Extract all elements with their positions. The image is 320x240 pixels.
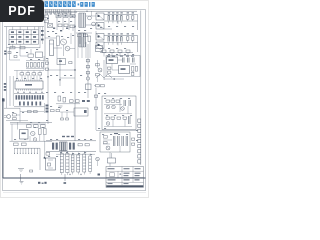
resistor network R1-R12 (table) bbox=[9, 30, 39, 44]
node dots top rail bbox=[56, 11, 87, 12]
op-amp U2 (error amp) bbox=[20, 130, 29, 140]
title block frame bbox=[106, 167, 144, 188]
resistor R92 bbox=[85, 144, 89, 146]
resistor R85 bbox=[22, 143, 27, 146]
junction block on frame bbox=[2, 99, 5, 102]
wire rail A- bbox=[104, 20, 138, 22]
labels C203-C208 bbox=[108, 33, 134, 34]
label rev mark bbox=[64, 182, 67, 184]
resistor R76 bbox=[56, 110, 60, 112]
resistor R34 bbox=[45, 68, 48, 70]
wire rail stubs bbox=[50, 11, 77, 15]
capacitor CX1 bbox=[48, 24, 53, 28]
capacitor bank C103-C108 bbox=[108, 15, 134, 20]
node dot T1a bbox=[74, 26, 75, 27]
resistor R74 bbox=[34, 111, 38, 113]
wire rail B+ bbox=[104, 35, 138, 37]
capacitor C112b bbox=[128, 58, 130, 63]
ground GND2 bbox=[20, 182, 24, 185]
sub-board outline B2 bbox=[102, 96, 136, 130]
capacitor bank C203-C208 bbox=[108, 36, 134, 41]
resistor R95 bbox=[46, 153, 50, 156]
diode bridge DB1 bbox=[65, 46, 70, 51]
wire mid-left bus bbox=[7, 47, 41, 49]
wire right h bbox=[94, 86, 96, 130]
resistor R77 bbox=[61, 118, 64, 120]
resistor R83 bbox=[41, 125, 46, 128]
title block logo box bbox=[110, 173, 115, 177]
vertical bus left bbox=[44, 10, 46, 60]
capacitor C92 bbox=[56, 143, 58, 150]
transistor Q6 bbox=[106, 105, 110, 109]
regulator U4 bbox=[119, 66, 130, 74]
sub-board outline B1 bbox=[106, 56, 140, 77]
pins U1 bbox=[17, 79, 42, 90]
capacitor C112 bbox=[127, 58, 129, 63]
labels above U3 bbox=[107, 56, 134, 57]
resistor R106 bbox=[101, 85, 105, 87]
left frame heavy segment bbox=[2, 98, 4, 178]
capacitor C93 bbox=[69, 143, 71, 150]
wire rail C bbox=[100, 52, 133, 54]
connector CN2 bbox=[66, 151, 69, 175]
resistor R78 bbox=[66, 118, 69, 120]
terminal comb J1 bbox=[46, 9, 71, 14]
wire to rectifier bbox=[86, 11, 96, 25]
resistor R27 bbox=[8, 52, 11, 54]
transistor Q2 bbox=[31, 131, 35, 135]
capacitor C1 (electrolytic) bbox=[88, 16, 92, 20]
transistor Q4 bbox=[106, 146, 110, 150]
wire rail B- bbox=[104, 42, 138, 44]
page shadow line bbox=[3, 192, 146, 194]
capacitor C10 (main filter) bbox=[50, 40, 54, 56]
wire filter links bbox=[56, 12, 76, 141]
wire driver links bbox=[12, 122, 44, 141]
resistor row R22-R26 bbox=[27, 63, 44, 68]
border frame bbox=[3, 10, 146, 191]
wire C ticks bbox=[104, 53, 128, 57]
wire sub links bbox=[112, 60, 136, 70]
wire B2 low bbox=[104, 119, 132, 126]
connector CN5 bbox=[83, 152, 86, 175]
filter box row 1 bbox=[56, 14, 75, 18]
transistor Q8 bbox=[106, 122, 110, 126]
inner bottom margin line bbox=[3, 177, 146, 179]
capacitor C31 bbox=[88, 36, 91, 42]
transistor Q2b bbox=[33, 138, 37, 142]
vertical chain parts bbox=[86, 60, 89, 81]
wire right bus bbox=[140, 11, 142, 166]
wire R41-R44 stubs bbox=[17, 71, 40, 80]
snubber R31 bbox=[78, 34, 82, 37]
capacitor C91 bbox=[52, 143, 54, 150]
transistor Q1 bbox=[61, 39, 67, 45]
wire cross link bbox=[44, 61, 75, 79]
label AC 220V (vertical) bbox=[4, 83, 6, 91]
capacitor C132 bbox=[129, 100, 131, 106]
title block dark row bbox=[106, 185, 143, 187]
sub-board outline B3 bbox=[100, 132, 130, 152]
capacitor bank C121-C124 bbox=[114, 136, 128, 146]
wire long drop bbox=[39, 148, 41, 170]
connector CN4 bbox=[77, 153, 80, 175]
arrow on B1 wire bbox=[113, 78, 115, 80]
capacitor C82 bbox=[44, 129, 47, 135]
resistor R75 bbox=[51, 110, 55, 112]
wire top rail bbox=[45, 11, 137, 12]
resistor R124 bbox=[132, 143, 135, 145]
wire harness comb bbox=[14, 148, 40, 154]
resistor R121 bbox=[104, 136, 108, 139]
wire plug bus bbox=[4, 107, 20, 109]
resistor row R111-R113 bbox=[132, 67, 138, 76]
fuse F2 bbox=[10, 47, 15, 49]
resistor R72 bbox=[13, 118, 17, 120]
rectifier box D202 bbox=[96, 42, 104, 49]
resistor row B2a bbox=[106, 100, 120, 102]
filter box row 2 bbox=[58, 24, 75, 28]
resistor R86 bbox=[30, 170, 33, 172]
fuse F3 bbox=[20, 47, 25, 49]
wire mid links bbox=[48, 98, 74, 124]
wire snubber bbox=[76, 33, 92, 44]
relay box K1 bbox=[36, 52, 43, 58]
wire B ticks bbox=[109, 43, 122, 45]
wire center-low rail bbox=[56, 103, 80, 105]
wire above title block bbox=[108, 153, 116, 167]
wire IC top bus bbox=[14, 70, 44, 72]
labels ladder bbox=[17, 91, 43, 94]
resistor R102 bbox=[96, 74, 100, 76]
wire B2 mid bbox=[104, 98, 132, 114]
connector P1 (AC plug) bbox=[4, 115, 11, 119]
resistor R82 bbox=[34, 125, 39, 128]
wire B drop bbox=[96, 31, 138, 52]
resistor R105 bbox=[96, 85, 100, 87]
wire left drop bbox=[6, 27, 8, 108]
labels C103-C108 bbox=[108, 12, 134, 13]
mark near title block bbox=[98, 174, 101, 176]
box center-top bbox=[57, 59, 66, 65]
cluster right of table bbox=[41, 27, 44, 44]
wire box3 links bbox=[96, 131, 138, 159]
wire A ticks bbox=[109, 21, 122, 23]
transformer L1 windings bbox=[79, 13, 85, 28]
wire q3 links bbox=[98, 60, 105, 82]
diode row D301-D304 bbox=[102, 50, 130, 53]
ground GND1 bbox=[18, 169, 24, 172]
marks mid band bbox=[47, 18, 68, 31]
resistor R101 bbox=[96, 64, 100, 66]
resistor R123 bbox=[132, 138, 135, 140]
resistor R33 bbox=[45, 62, 48, 64]
op-amp U3 (opto) bbox=[107, 57, 118, 64]
fuse F1 bbox=[45, 15, 49, 23]
wire rail D1 bbox=[10, 121, 52, 123]
rectifier box D300 bbox=[96, 46, 103, 52]
resistor R122 bbox=[104, 142, 108, 144]
connector CN3 bbox=[71, 153, 74, 175]
wire center bus 2 bbox=[59, 58, 61, 86]
wire cluster links bbox=[20, 48, 44, 70]
cluster right of ladder bbox=[45, 103, 49, 113]
resistor ladder R51-R67 bbox=[16, 95, 44, 105]
wire r7x bbox=[20, 111, 44, 113]
wire left aux bbox=[10, 48, 21, 60]
wire rail A+ bbox=[104, 14, 138, 16]
box mid-center bbox=[74, 108, 88, 116]
connector CN7 pins bbox=[138, 119, 141, 163]
transformer T1 bbox=[60, 142, 68, 151]
rectifier box D201 bbox=[96, 34, 104, 41]
resistor R73 bbox=[28, 111, 32, 113]
capacitor C133 bbox=[129, 116, 131, 124]
transformer L2 windings bbox=[79, 33, 85, 47]
resistor R116 bbox=[108, 71, 111, 73]
capacitor C131 bbox=[124, 100, 126, 106]
title block text marks bbox=[108, 168, 141, 184]
rectifier box D101 bbox=[96, 13, 104, 20]
ground GND3 bbox=[59, 106, 63, 109]
wire plug links bbox=[6, 108, 28, 122]
box small center bbox=[86, 84, 92, 90]
resistor R91 bbox=[78, 144, 82, 146]
arrow mark A3 bbox=[80, 174, 81, 176]
resistor cells R1-R12 bbox=[11, 31, 36, 42]
component value labels bbox=[8, 21, 138, 157]
label T1 text bbox=[62, 136, 74, 137]
resistor R81 bbox=[27, 125, 32, 128]
transistor Q3 bbox=[98, 68, 102, 72]
arrow mark A2 bbox=[69, 174, 70, 176]
resistor R28 bbox=[14, 56, 17, 58]
wire center bus 1 bbox=[47, 58, 49, 98]
wire stub crossing margin 1 bbox=[20, 174, 22, 181]
capacitor C111b bbox=[123, 58, 125, 63]
capacitor C81 bbox=[39, 129, 42, 135]
resistor R107 bbox=[94, 95, 97, 97]
wire IC verticals bbox=[10, 76, 13, 106]
PDF badge bbox=[0, 0, 44, 22]
connector CN6 bbox=[89, 154, 92, 175]
label left margin 1 bbox=[4, 51, 6, 55]
wire xfmr rail top bbox=[46, 140, 96, 142]
wire stack bus bbox=[56, 153, 95, 155]
wire verticals top-center bbox=[71, 33, 90, 58]
wire switch links bbox=[45, 38, 75, 58]
resistor row R41-R44 bbox=[20, 73, 42, 75]
rectifier box D102 bbox=[96, 23, 104, 30]
wire drop x44 bbox=[44, 141, 46, 156]
op-amp U1 (main controller) bbox=[15, 81, 43, 89]
resistor R108 bbox=[94, 107, 97, 109]
zigzag wire bbox=[96, 74, 112, 78]
transistor Q5 bbox=[96, 157, 100, 166]
wire stub crossing margin 2 bbox=[64, 174, 66, 181]
relay K2 box bbox=[46, 158, 56, 170]
resistor R84 bbox=[14, 143, 19, 146]
capacitor C113 bbox=[132, 58, 134, 63]
transistor Q9 bbox=[121, 107, 125, 111]
diode D11 on bus bbox=[47, 76, 49, 78]
resistor R21 bbox=[28, 54, 34, 57]
snubber R32 bbox=[84, 34, 88, 37]
wire rail D2 bbox=[10, 123, 46, 125]
cluster center-low bbox=[58, 96, 79, 102]
label page note bbox=[38, 182, 47, 184]
wire center bus 3 bbox=[87, 44, 89, 98]
wire B1 bottom bbox=[104, 78, 124, 80]
page background bbox=[0, 0, 149, 198]
resistor row B2b bbox=[106, 117, 127, 119]
capacitor C94 bbox=[73, 143, 75, 150]
label B3 bbox=[114, 133, 118, 134]
wire xfmr rail bottom bbox=[46, 150, 96, 152]
capacitor C2 (electrolytic) bbox=[92, 22, 96, 26]
transistor Q7 bbox=[112, 105, 116, 109]
diode D12 on bus bbox=[59, 79, 61, 81]
resistor R115 bbox=[108, 67, 111, 69]
wire rail D3 bbox=[10, 140, 53, 142]
arrow mark A1 bbox=[43, 156, 47, 160]
capacitor C113b bbox=[133, 58, 135, 63]
wire grid links bbox=[13, 27, 40, 48]
cluster marks low bbox=[82, 100, 90, 102]
title text (blue) bbox=[45, 1, 95, 7]
wire top-left bus bbox=[4, 26, 44, 28]
resistor R71 bbox=[13, 114, 17, 116]
connector CN1 bbox=[60, 151, 63, 175]
wire A drop bbox=[104, 15, 138, 31]
page edge outline bbox=[1, 1, 149, 198]
wire ladder rails bbox=[14, 94, 45, 107]
node dot A bbox=[74, 69, 75, 70]
resistor R13 bbox=[57, 36, 60, 46]
capacitor C111 bbox=[122, 58, 124, 63]
part at x70 bbox=[69, 62, 72, 64]
